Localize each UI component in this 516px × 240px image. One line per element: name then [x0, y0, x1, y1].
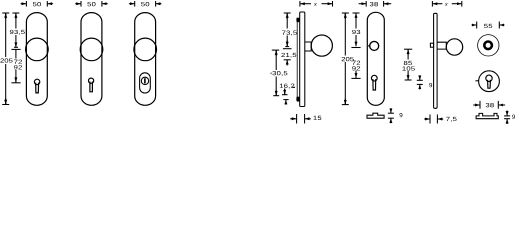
- escutcheon height dim 9: [504, 115, 510, 117]
- dim 38 escutcheon: bars: [479, 101, 481, 109]
- dim 50 plate3: arrows: [129, 3, 135, 5]
- label 205: [0, 58, 12, 62]
- bottom dim 15: bars: [296, 114, 298, 124]
- knob ball side: [311, 35, 332, 56]
- label x (side view 2): [445, 3, 448, 6]
- keyhole BB plate2: stem: [90, 82, 93, 92]
- label 21,5: [281, 53, 296, 58]
- keyhole PZ tall plate: circle: [371, 75, 377, 81]
- label 85: [404, 61, 412, 65]
- label 50 plate3: [141, 2, 149, 6]
- keyhole PZ plate1: circle: [34, 79, 39, 84]
- knob K1 front circle: [26, 38, 49, 61]
- dim 50 plate3: bars: [134, 1, 136, 7]
- label 55: [484, 24, 492, 28]
- label 7,5: [446, 117, 456, 122]
- label 205 (tall plate): [342, 57, 354, 61]
- front layer top foot: [296, 18, 299, 23]
- keyhole PZ escutcheon: circle: [486, 75, 492, 81]
- tall chain line 2 (93 + 72/92): [355, 13, 357, 29]
- dim x top 2: bars: [431, 1, 433, 7]
- dim 50 plate2: arrows: [75, 3, 81, 5]
- label 38 escutcheon: [486, 103, 494, 107]
- knob stem 2: [437, 42, 446, 49]
- keyhole PZ tall plate: stem: [373, 79, 376, 90]
- keyhole PZ plate1: stem: [36, 83, 39, 93]
- label 38 (tall plate top): [370, 2, 378, 6]
- rosette hole circle: [370, 41, 379, 50]
- label 15: [313, 116, 321, 120]
- label 9 (section dim): [400, 113, 403, 117]
- dim 21,5 ticks/arrows: [284, 59, 291, 61]
- tall plate outline: [367, 12, 384, 105]
- profile slab: [300, 12, 305, 107]
- label 30,5: [270, 72, 272, 74]
- bottom dim 7,5: bars: [429, 115, 431, 124]
- label 50 plate1: [33, 2, 41, 6]
- WC turn circle plate3: [141, 77, 148, 84]
- right chain (85/105): [407, 49, 409, 59]
- tick keyhole centre: [11, 82, 20, 84]
- escutcheon circle: [479, 71, 500, 92]
- profile front layer line: [296, 20, 298, 98]
- inner dim line 73,5: [286, 13, 288, 29]
- dim 50 plate2: bars: [80, 1, 82, 7]
- dim 55: bars: [476, 22, 478, 29]
- front layer bottom foot: [296, 97, 299, 102]
- label 9 (keyhole mini dim): [429, 83, 432, 87]
- outer dim line 30,5: [275, 50, 277, 70]
- dim x top: bars: [299, 1, 301, 7]
- knob middle circle: [484, 42, 492, 50]
- bottom cross-section bar: [367, 113, 384, 118]
- WC turn bar plate3: [144, 78, 146, 84]
- dim 50 plate1: bars: [25, 1, 27, 7]
- label 50 plate2: [87, 2, 95, 6]
- knob K2 front circle: [80, 38, 103, 61]
- mini dim 16,2: [292, 86, 295, 88]
- left dim line 1 (height 205): [5, 13, 7, 57]
- plate 3 outline: [135, 13, 156, 106]
- plate 2 outline: [81, 13, 102, 106]
- escutcheon left tick: [475, 80, 478, 82]
- spindle notch: [430, 43, 433, 47]
- label 93: [352, 30, 360, 34]
- label 93,5: [10, 30, 25, 35]
- tick knob centre: [14, 46, 18, 48]
- knob outer circle: [478, 35, 499, 56]
- mini dim 9 (right of keyhole): [417, 79, 423, 81]
- label 72: [14, 60, 22, 64]
- keyhole PZ escutcheon: stem: [488, 80, 491, 88]
- dim 38 top: bars: [365, 1, 367, 7]
- thin plate profile: [434, 13, 438, 108]
- dim 50 plate1: arrows: [21, 3, 27, 5]
- rosette left tick: [368, 45, 370, 47]
- knob K3 front circle: [134, 38, 157, 61]
- knob ball 2: [446, 39, 462, 55]
- label 72 (tall): [352, 61, 360, 65]
- tick and up-arrow below 16,2 dim: [283, 99, 288, 101]
- WC oval cutout plate3: [140, 73, 151, 93]
- label 92 (tall): [352, 66, 360, 70]
- keyhole BB plate2: circle: [89, 78, 94, 83]
- tall chain line 1 (205): [344, 13, 346, 56]
- plate 1 outline: [26, 13, 47, 106]
- label 9 escutcheon: [512, 115, 515, 119]
- knob stem side: [305, 42, 311, 51]
- left dim line 2 (93,5 + 72/92): [15, 13, 17, 29]
- dim x top: arrows inside: [300, 3, 311, 5]
- label 105: [402, 66, 414, 70]
- label 92: [14, 65, 22, 69]
- label 73,5: [282, 31, 297, 36]
- label x (side view 1): [314, 3, 317, 6]
- section height dim: [388, 112, 394, 114]
- label 16,2: [280, 84, 295, 89]
